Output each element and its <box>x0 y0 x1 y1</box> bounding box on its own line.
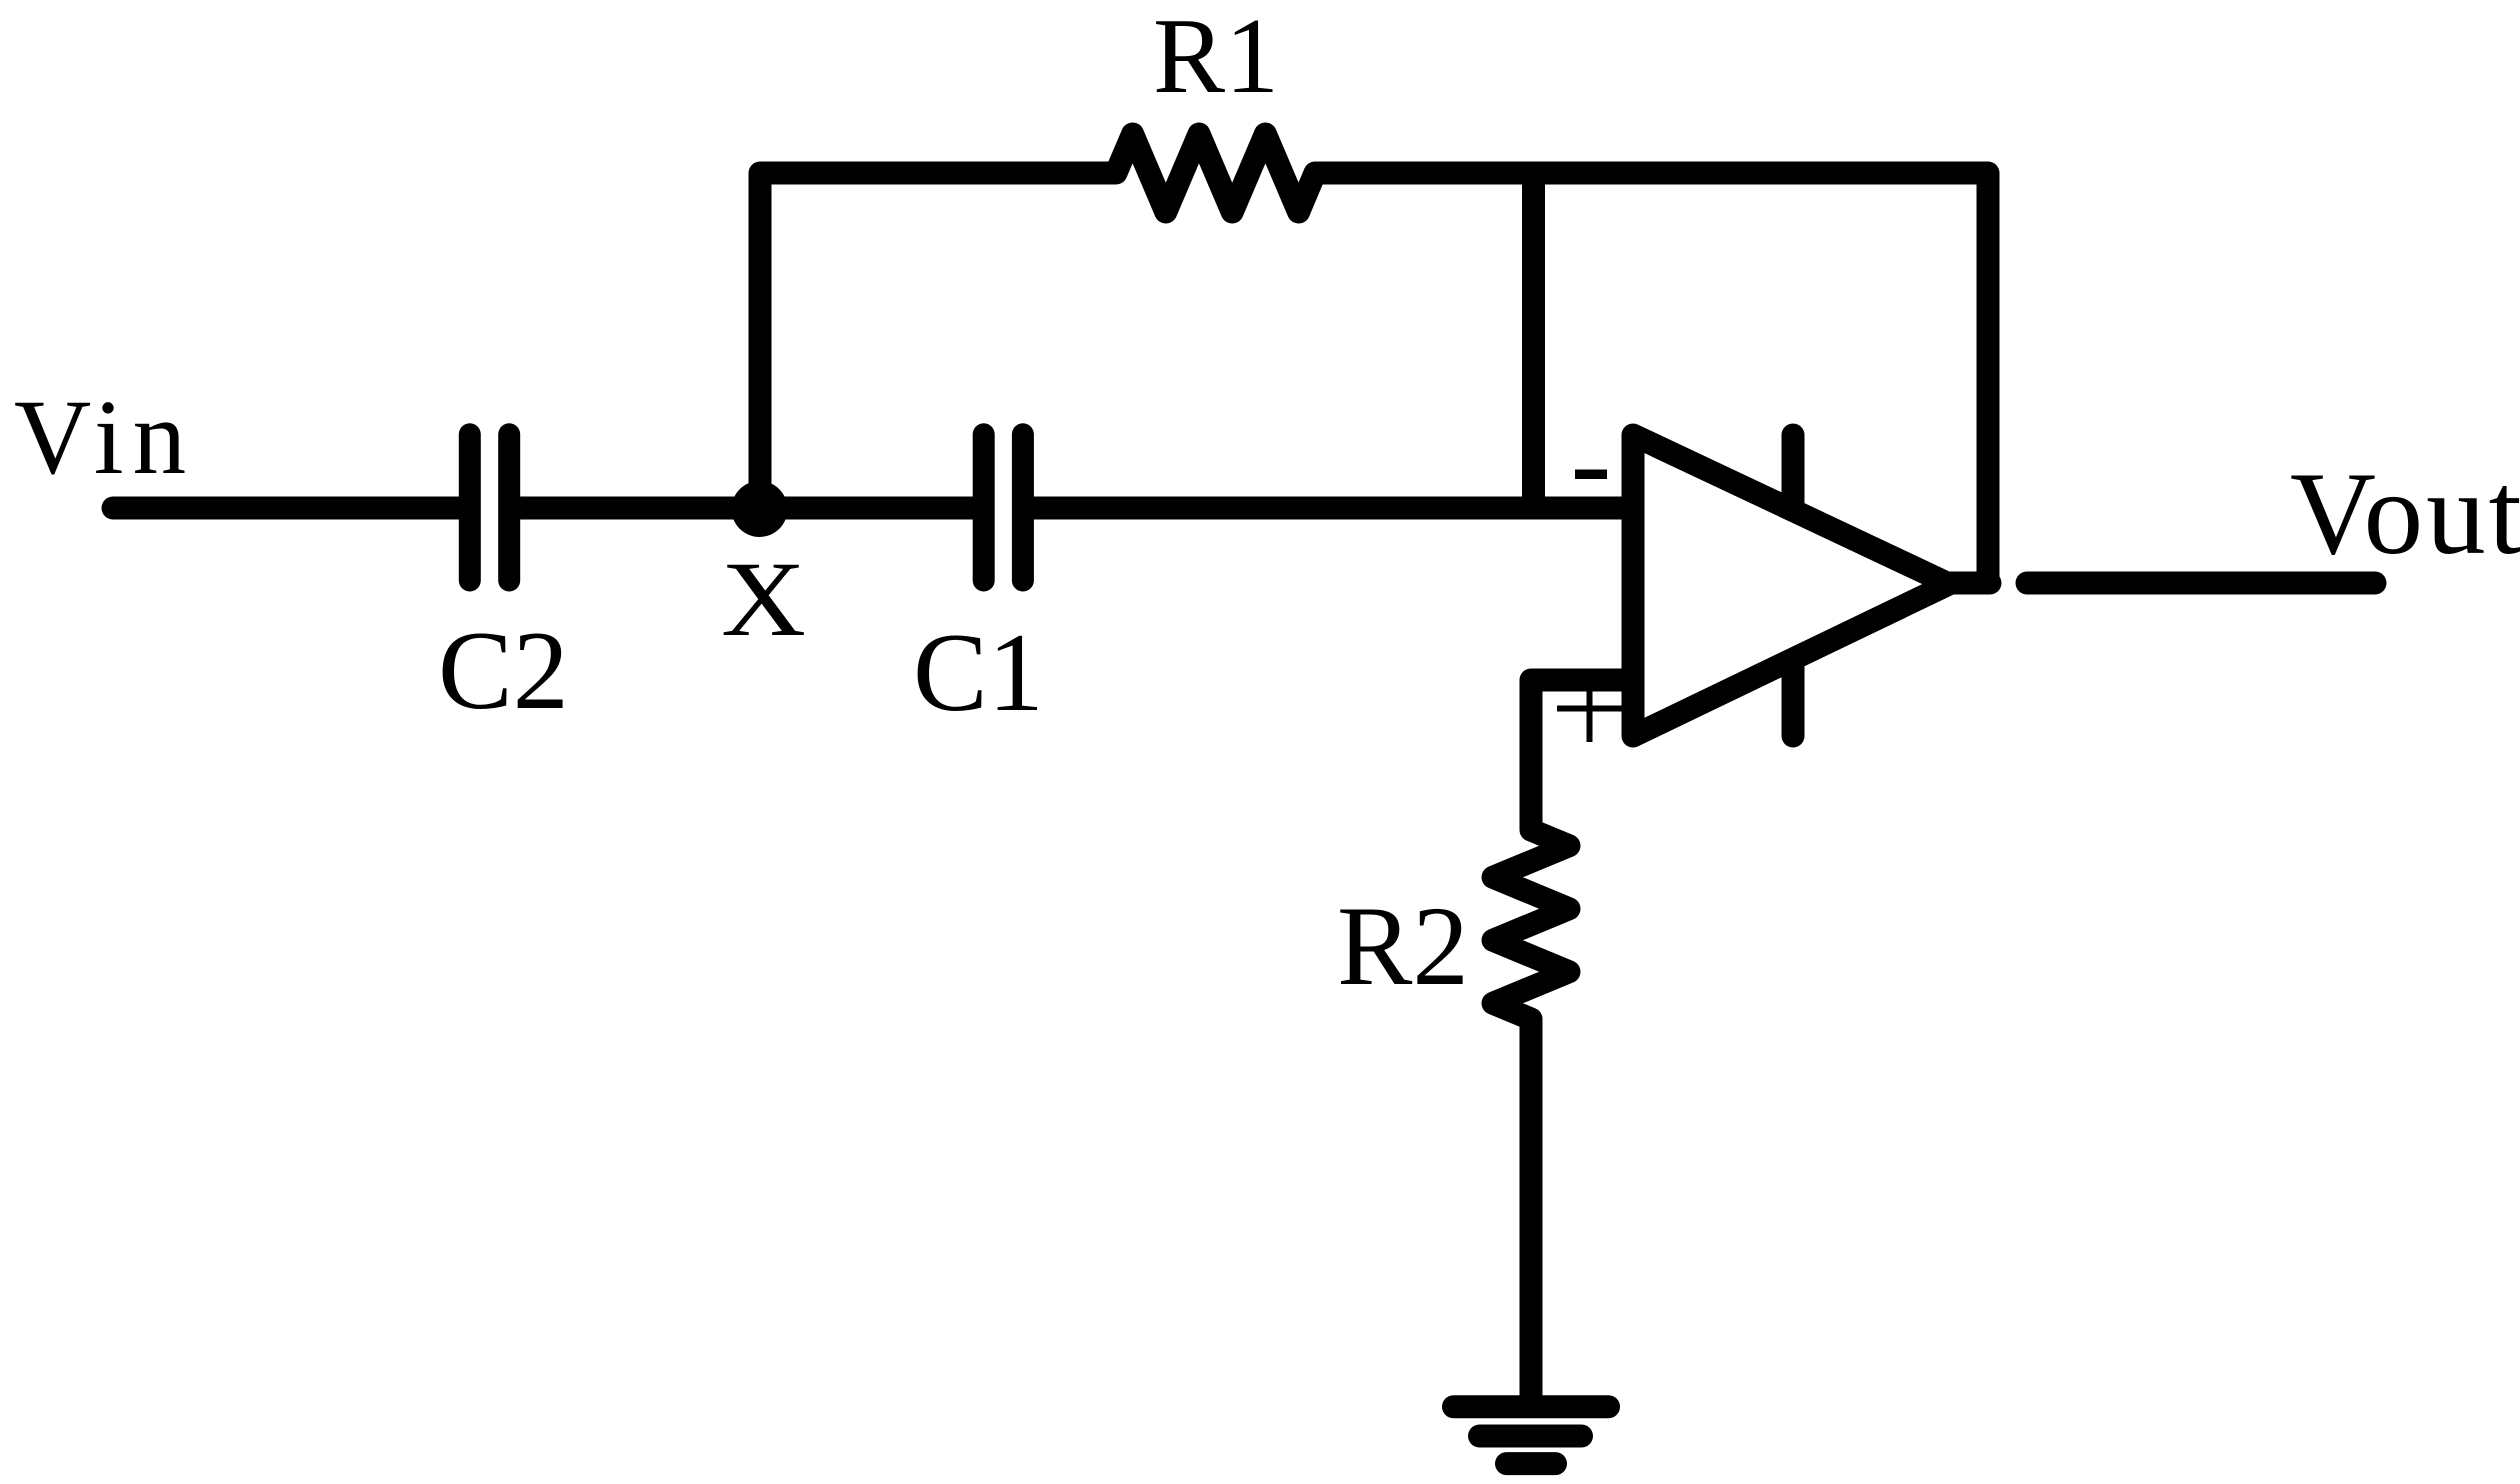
node X junction dot <box>732 481 788 537</box>
ground symbol <box>1454 1407 1609 1464</box>
op-amp U1 triangle <box>1633 435 1949 736</box>
svg-text:R1: R1 <box>1153 0 1279 116</box>
op-amp negative power pin <box>1782 659 1805 736</box>
capacitor C1 <box>984 434 1023 580</box>
wire Vin to C2 left plate <box>113 497 462 520</box>
op-amp minus sign <box>1575 470 1607 480</box>
wire C1 to op-amp inverting input <box>1023 497 1633 520</box>
op-amp output wire (apex to feedback corner) <box>1949 572 1990 595</box>
wire output stub <box>2027 572 2375 595</box>
wire R2 to ground <box>1520 1019 1543 1406</box>
wire feedback right branch: R1 to output corner <box>1315 173 1988 583</box>
svg-text:X: X <box>721 541 806 659</box>
wire noninverting input with corner down to R2 <box>1531 680 1633 830</box>
wire inverting riser (feedback tap to input wire) <box>1522 173 1545 508</box>
resistor R1 <box>1116 134 1315 212</box>
op-amp plus sign <box>1557 678 1622 742</box>
capacitor C2 <box>470 434 509 580</box>
svg-text:R2: R2 <box>1337 884 1469 1009</box>
svg-text:Vin: Vin <box>14 379 195 497</box>
wire feedback left branch: node X up and right to R1 <box>760 173 1116 508</box>
svg-text:C2: C2 <box>438 609 569 733</box>
op-amp positive power pin <box>1782 435 1805 512</box>
svg-text:Vout: Vout <box>2290 447 2520 579</box>
svg-text:C1: C1 <box>913 611 1044 735</box>
wire C2 to C1 through node X <box>509 497 984 520</box>
resistor R2 <box>1493 830 1569 1019</box>
